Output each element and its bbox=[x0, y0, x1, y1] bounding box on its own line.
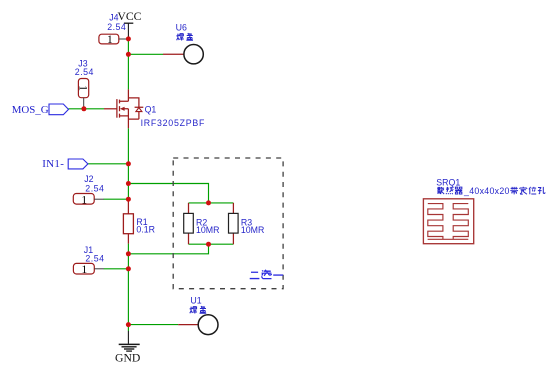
svg-text:MOS_G: MOS_G bbox=[12, 104, 49, 116]
svg-text:10MR: 10MR bbox=[241, 225, 264, 235]
svg-text:U6: U6 bbox=[176, 23, 187, 33]
svg-text:1: 1 bbox=[81, 194, 87, 206]
svg-text:1: 1 bbox=[107, 34, 113, 46]
svg-text:10MR: 10MR bbox=[196, 225, 219, 235]
svg-text:IRF3205ZPBF: IRF3205ZPBF bbox=[141, 118, 205, 128]
svg-text:2.54: 2.54 bbox=[85, 253, 104, 263]
svg-text:IN1-: IN1- bbox=[42, 158, 64, 170]
svg-text:2.54: 2.54 bbox=[85, 184, 104, 194]
svg-text:Q1: Q1 bbox=[145, 105, 157, 115]
svg-text:J2: J2 bbox=[84, 174, 93, 184]
svg-text:_40x40x20: _40x40x20 bbox=[463, 186, 510, 196]
svg-text:U1: U1 bbox=[190, 296, 201, 306]
svg-text:SRQ1: SRQ1 bbox=[436, 178, 460, 188]
svg-text:2.54: 2.54 bbox=[107, 22, 126, 32]
svg-text:1: 1 bbox=[77, 85, 89, 91]
svg-text:GND: GND bbox=[115, 352, 140, 365]
svg-text:1: 1 bbox=[81, 264, 87, 276]
svg-text:0.1R: 0.1R bbox=[136, 225, 155, 235]
svg-text:2.54: 2.54 bbox=[75, 67, 94, 77]
